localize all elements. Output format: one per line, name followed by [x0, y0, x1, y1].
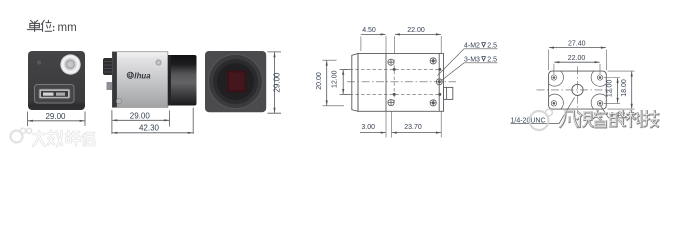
dimension 22.00 — [554, 61, 599, 63]
svg-text:lhua: lhua — [134, 72, 151, 81]
dimension 12.00 vertical — [617, 78, 619, 103]
unit label 单位：mm — [27, 20, 51, 31]
glyph 位 — [41, 20, 51, 31]
svg-text:22.00: 22.00 — [407, 27, 425, 34]
side body — [112, 52, 168, 108]
svg-text:23.70: 23.70 — [404, 124, 422, 131]
phillips screw bottom-left — [388, 100, 394, 106]
back USB receptacle — [39, 89, 70, 99]
phillips screw top-left — [388, 59, 394, 65]
extension lines bottom view — [549, 50, 635, 110]
technical drawing: bottom view — [549, 71, 607, 109]
dimension 22.00 — [395, 33, 441, 35]
svg-text:22.00: 22.00 — [568, 55, 586, 62]
technical drawing: side elevation — [352, 54, 453, 112]
svg-text:29.00: 29.00 — [130, 111, 151, 120]
corner boss arc bottom-left — [549, 94, 564, 109]
watermark logo bottom-left — [11, 128, 32, 142]
label 4-M2 depth 2.5 — [438, 43, 498, 76]
corner hole top-right — [597, 75, 602, 80]
phillips screw top-right — [430, 58, 436, 64]
center line — [347, 81, 456, 83]
front sensor — [227, 70, 247, 92]
svg-text:18.00: 18.00 — [621, 79, 628, 97]
dimension 27.40 — [549, 47, 606, 49]
front bezel — [352, 54, 358, 112]
dimension 42.30 under side view — [112, 132, 193, 134]
corner hole bottom-left — [551, 101, 556, 106]
side small tab — [107, 82, 115, 90]
rear connector — [444, 87, 453, 99]
front lens ring — [209, 55, 263, 109]
rear column edge — [438, 54, 440, 112]
技 — [644, 111, 658, 127]
extension lines — [361, 36, 441, 138]
center lines of bottom view — [537, 67, 613, 114]
back USB port plate — [35, 85, 75, 104]
dimension 12.00 — [340, 69, 351, 94]
能 — [611, 111, 626, 126]
photo: camera front view — [205, 51, 266, 112]
corner hole top-left — [551, 75, 556, 80]
M3 screw on centerline — [436, 79, 442, 85]
center tripod hole — [572, 84, 583, 95]
watermark circle logo near 1/4-20UNC — [530, 109, 553, 130]
side lens barrel — [168, 55, 197, 106]
corner boss arc top-right — [591, 71, 606, 86]
视 — [578, 113, 593, 128]
svg-text:3.00: 3.00 — [361, 124, 375, 131]
label 3-M3 depth 2.5 — [441, 57, 497, 81]
camera body outline — [358, 54, 444, 112]
colon — [53, 26, 55, 28]
svg-text:4.50: 4.50 — [362, 27, 376, 34]
dimension 29.00 under back view — [28, 112, 86, 127]
back LED dot — [37, 60, 41, 64]
dimension 4.50 — [361, 33, 386, 35]
corner hole bottom-right — [597, 101, 602, 106]
svg-text:42.30: 42.30 — [139, 124, 160, 133]
svg-text:29.00: 29.00 — [45, 112, 66, 121]
phillips screw bottom-right — [430, 100, 436, 106]
hole center dots — [393, 68, 442, 96]
corner boss arc bottom-right — [591, 94, 606, 109]
dimension 20.00 — [323, 60, 345, 106]
智 — [594, 111, 608, 127]
svg-text:12.00: 12.00 — [607, 80, 614, 98]
dahua logo on side — [127, 72, 133, 78]
corner boss arc top-left — [549, 71, 564, 86]
dimension 29.00 right of front view — [268, 52, 282, 113]
watermark 凡视智能科技 — [561, 111, 659, 127]
hidden hole rows (dashed) — [344, 60, 456, 106]
svg-text:27.40: 27.40 — [568, 41, 586, 48]
glyph 单 — [27, 20, 42, 31]
svg-text:12.00: 12.00 — [331, 70, 338, 88]
photo: camera side view — [103, 52, 197, 108]
side rear connector knob — [103, 58, 114, 75]
watermark 大数跨境 — [33, 131, 94, 147]
凡 — [561, 112, 578, 128]
hole column dashed — [393, 60, 395, 106]
svg-text:mm: mm — [58, 22, 77, 34]
svg-text:29.00: 29.00 — [273, 72, 282, 93]
photo: camera back view — [28, 51, 85, 110]
back circular connector — [60, 54, 80, 74]
dimension 18.00 vertical — [631, 72, 633, 109]
side screw holes — [156, 60, 161, 65]
base plate outline — [549, 71, 607, 109]
svg-text:20.00: 20.00 — [316, 72, 323, 90]
dimension 3.00 — [360, 132, 386, 134]
dimension 29.00 under side view — [112, 108, 193, 135]
front plate edge — [385, 54, 387, 112]
科 — [627, 111, 641, 127]
dimension 23.70 — [392, 132, 441, 134]
